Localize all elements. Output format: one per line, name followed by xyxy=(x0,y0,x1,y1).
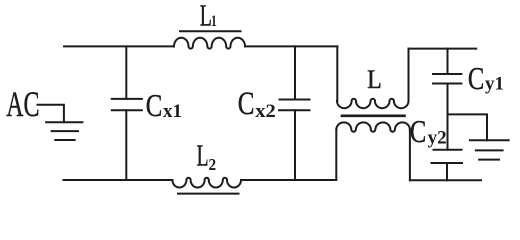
wire bottom rail mid segment xyxy=(241,179,336,181)
capacitor Cx1 plates xyxy=(112,98,142,100)
wire top right segment xyxy=(409,48,477,50)
wire corner down to choke top winding xyxy=(336,46,338,101)
svg-text:x1: x1 xyxy=(163,101,182,122)
capacitor Cx2 stem top xyxy=(294,46,296,99)
choke L bottom winding xyxy=(336,122,410,131)
capacitor Cx2 plates xyxy=(280,99,310,101)
choke L bottom winding left lead xyxy=(335,130,337,181)
capacitor Cx1 stem top xyxy=(125,46,127,99)
wire AC to ground stem xyxy=(38,105,64,123)
ground at AC input xyxy=(46,121,82,123)
svg-text:y1: y1 xyxy=(485,74,504,95)
ground at Y capacitors xyxy=(470,139,509,141)
wire bottom right segment xyxy=(410,179,481,181)
inductor L2 xyxy=(172,178,241,188)
svg-text:L: L xyxy=(197,138,209,173)
capacitor Cy1 stem top xyxy=(447,49,449,74)
svg-text:x2: x2 xyxy=(255,101,276,122)
label L2 underline xyxy=(178,193,239,195)
svg-text:1: 1 xyxy=(211,12,217,30)
svg-text:C: C xyxy=(238,86,255,122)
capacitor Cy1 plates xyxy=(433,73,461,75)
label L1 underline xyxy=(180,30,241,32)
capacitor Cy2 plates xyxy=(434,149,462,151)
wire bottom rail left segment xyxy=(64,179,173,181)
svg-text:L: L xyxy=(367,66,382,94)
svg-text:C: C xyxy=(410,115,426,150)
svg-text:L: L xyxy=(200,0,212,32)
capacitor Cy2 stem bottom xyxy=(446,163,448,180)
svg-text:y2: y2 xyxy=(428,128,447,149)
wire junction to right ground xyxy=(448,114,488,140)
capacitor Cx1 stem bottom xyxy=(125,110,127,180)
inductor L1 xyxy=(174,38,245,49)
svg-text:C: C xyxy=(146,89,163,123)
choke core bar xyxy=(342,115,405,118)
svg-text:AC: AC xyxy=(6,84,39,124)
choke L bottom winding right lead xyxy=(409,130,411,181)
capacitor Cx2 stem bottom xyxy=(294,110,296,180)
svg-text:C: C xyxy=(468,62,484,97)
choke L top winding xyxy=(337,99,409,108)
wire Cy1 to Cy2 xyxy=(447,84,449,150)
wire top rail left segment xyxy=(64,45,174,47)
svg-text:2: 2 xyxy=(209,156,217,174)
wire top rail right segment xyxy=(245,45,337,47)
choke L top winding right lead up xyxy=(408,49,410,101)
